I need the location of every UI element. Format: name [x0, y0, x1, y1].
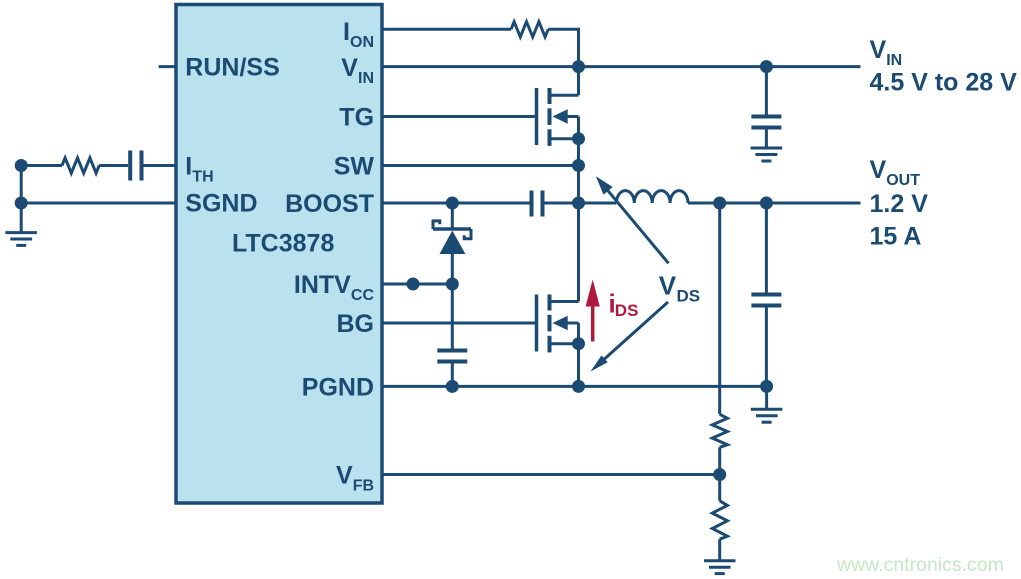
wire left rail [20, 166, 23, 232]
wire CITH to IC [144, 164, 177, 167]
resistor R2 [712, 501, 727, 539]
wire rail SW [577, 139, 580, 203]
svg-text:BOOST: BOOST [285, 190, 374, 218]
wire ION to corner [548, 29, 578, 66]
node VIN-rail [572, 60, 585, 73]
arrow VDS lower [591, 302, 669, 372]
wire Q1 body-source [577, 117, 580, 139]
wire ION [382, 28, 511, 31]
wire TG [382, 115, 535, 118]
transistor Q2 [537, 295, 579, 353]
node Q1 source [572, 132, 585, 145]
diode D1 zener [433, 203, 471, 284]
capacitor CVCC [437, 351, 467, 362]
svg-text:I: I [185, 153, 192, 181]
wire CVCC to PGND [451, 364, 454, 387]
node rail-inductor [572, 197, 585, 210]
wire SW [382, 164, 579, 167]
resistor R1 [712, 414, 727, 447]
node VOUT-cap [760, 197, 773, 210]
node VOUT-divider [713, 197, 726, 210]
node Q2 source [572, 337, 585, 350]
ground R2 [704, 539, 736, 573]
node VIN-cap [760, 60, 773, 73]
transistor Q1 [537, 88, 579, 146]
svg-text:LTC3878: LTC3878 [232, 230, 334, 258]
node PGND-rail [572, 380, 585, 393]
svg-text:INTV: INTV [294, 271, 351, 299]
svg-text:ON: ON [350, 34, 374, 51]
wire BOOST [382, 202, 532, 205]
svg-text:BG: BG [337, 310, 375, 338]
svg-text:DS: DS [615, 301, 639, 320]
wire VOUT to R1 [718, 203, 721, 414]
wire VFB to R2 [718, 475, 721, 501]
ground CIN [751, 148, 783, 161]
node SGND-rail [15, 197, 28, 210]
svg-text:SGND: SGND [185, 190, 257, 218]
wire RUN/SS stub [159, 65, 176, 68]
svg-text:SW: SW [334, 153, 375, 181]
node ITH-rail [15, 159, 28, 172]
ground PGND [751, 386, 783, 422]
node BOOST-diode [446, 197, 459, 210]
node PGND-CVCC [446, 380, 459, 393]
resistor RON [511, 22, 548, 37]
wire PGND [382, 385, 767, 388]
resistor RITH [62, 158, 99, 173]
svg-text:V: V [341, 54, 358, 82]
wire CB to rail [545, 202, 579, 205]
node INTVCC-diode [446, 278, 459, 291]
svg-text:V: V [336, 462, 353, 490]
wire Q2 source to PGND [577, 344, 580, 387]
ground SGND [5, 233, 37, 246]
node SW [572, 159, 585, 172]
wire Q1 drain up [577, 67, 580, 96]
arrow VDS upper [596, 176, 669, 263]
svg-text:I: I [343, 18, 350, 46]
wire BG [382, 322, 535, 325]
inductor L1 [579, 191, 861, 203]
svg-text:DS: DS [677, 287, 701, 306]
wire rail to Q2 drain [577, 203, 580, 302]
capacitor CITH [130, 151, 141, 181]
node INTVCC pin [407, 278, 420, 291]
svg-text:RUN/SS: RUN/SS [185, 54, 279, 82]
node VFB [713, 468, 726, 481]
capacitor CB [532, 191, 543, 217]
wire SGND [21, 202, 176, 205]
svg-text:V: V [659, 271, 677, 301]
arrow iDS red [586, 280, 600, 342]
wire ITH left [21, 164, 62, 167]
svg-text:IN: IN [358, 70, 374, 87]
svg-text:www.cntronics.com: www.cntronics.com [836, 554, 1004, 576]
svg-text:TH: TH [192, 169, 213, 186]
capacitor COUT [751, 203, 781, 386]
op-amp U1 [176, 5, 382, 504]
svg-text:PGND: PGND [302, 373, 374, 401]
wire Q2 body-source [577, 323, 580, 344]
svg-text:CC: CC [351, 287, 375, 304]
svg-text:TG: TG [339, 104, 374, 132]
svg-text:IN: IN [886, 52, 902, 69]
svg-text:1.2 V: 1.2 V [870, 190, 929, 218]
wire VFB [382, 473, 720, 476]
wire RITH to CITH [99, 164, 128, 167]
capacitor CIN [751, 67, 781, 147]
node PGND-end [760, 380, 773, 393]
wire VIN [382, 65, 861, 68]
wire diode to CVCC [451, 284, 454, 349]
svg-text:FB: FB [353, 478, 374, 495]
svg-text:V: V [870, 36, 887, 64]
svg-text:4.5 V to 28 V: 4.5 V to 28 V [870, 69, 1018, 97]
wire R1 to VFB [718, 447, 721, 474]
svg-text:OUT: OUT [886, 172, 920, 189]
svg-text:V: V [870, 156, 887, 184]
svg-text:15 A: 15 A [870, 223, 922, 251]
wire INTVCC [382, 283, 452, 286]
